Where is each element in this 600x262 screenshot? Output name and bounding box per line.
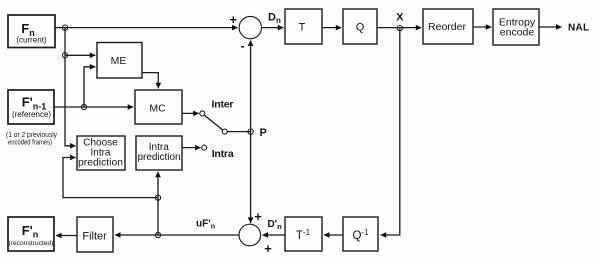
svg-text:+: + [254, 209, 262, 224]
svg-text:Filter: Filter [82, 230, 107, 242]
svg-text:MC: MC [149, 102, 166, 114]
svg-text:Q: Q [356, 21, 365, 33]
svg-text:-: - [240, 38, 244, 53]
svg-text:Intra: Intra [212, 148, 234, 160]
svg-text:+: + [264, 241, 272, 256]
svg-text:Inter: Inter [212, 98, 234, 110]
svg-text:Reorder: Reorder [428, 21, 466, 33]
svg-text:(current): (current) [16, 35, 47, 44]
svg-text:encode: encode [500, 27, 535, 39]
svg-text:prediction: prediction [138, 152, 181, 163]
svg-text:NAL: NAL [568, 23, 589, 34]
svg-text:encoded frames): encoded frames) [8, 138, 52, 147]
svg-text:prediction: prediction [78, 157, 123, 168]
svg-text:(reference): (reference) [12, 110, 51, 119]
svg-text:T: T [299, 21, 306, 33]
svg-text:P: P [260, 127, 267, 139]
svg-text:X: X [396, 12, 404, 24]
svg-text:+: + [230, 12, 238, 27]
svg-text:ME: ME [111, 55, 127, 67]
svg-text:(reconstructed): (reconstructed) [9, 240, 54, 247]
